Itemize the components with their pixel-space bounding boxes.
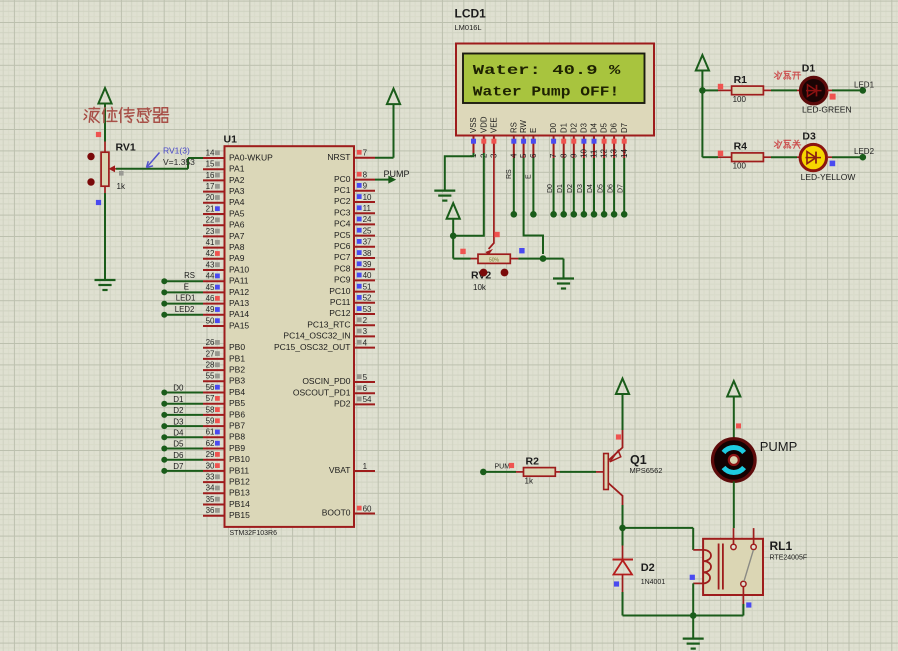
svg-text:45: 45 bbox=[206, 283, 215, 292]
svg-text:PA5: PA5 bbox=[229, 208, 245, 218]
svg-text:LED1: LED1 bbox=[176, 294, 196, 303]
svg-text:E: E bbox=[525, 174, 532, 179]
svg-text:Q1: Q1 bbox=[630, 453, 647, 467]
svg-text:PB7: PB7 bbox=[229, 421, 245, 431]
svg-text:PC4: PC4 bbox=[334, 219, 351, 229]
svg-text:4: 4 bbox=[509, 153, 518, 158]
svg-text:RS: RS bbox=[506, 169, 513, 179]
svg-text:PB3: PB3 bbox=[229, 376, 245, 386]
svg-text:55: 55 bbox=[206, 372, 215, 381]
svg-text:1k: 1k bbox=[525, 476, 534, 485]
svg-text:D7: D7 bbox=[173, 462, 184, 471]
svg-text:D2: D2 bbox=[641, 562, 655, 574]
svg-text:D3: D3 bbox=[580, 123, 589, 133]
svg-text:14: 14 bbox=[206, 148, 215, 157]
svg-text:8: 8 bbox=[363, 170, 368, 179]
svg-text:8: 8 bbox=[559, 153, 568, 158]
svg-text:26: 26 bbox=[206, 338, 215, 347]
svg-text:VEE: VEE bbox=[490, 117, 499, 133]
svg-text:27: 27 bbox=[206, 349, 215, 358]
svg-text:6: 6 bbox=[529, 153, 538, 158]
svg-text:PC0: PC0 bbox=[334, 174, 351, 184]
svg-text:D6: D6 bbox=[610, 123, 619, 133]
svg-text:100: 100 bbox=[733, 162, 747, 171]
svg-text:PC1: PC1 bbox=[334, 185, 351, 195]
svg-text:D1: D1 bbox=[173, 395, 184, 404]
svg-text:RS: RS bbox=[509, 122, 518, 133]
svg-text:PA10: PA10 bbox=[229, 264, 249, 274]
svg-text:D5: D5 bbox=[173, 440, 184, 449]
svg-text:D4: D4 bbox=[587, 184, 594, 193]
svg-text:21: 21 bbox=[206, 204, 215, 213]
svg-text:9: 9 bbox=[569, 153, 578, 158]
svg-text:VBAT: VBAT bbox=[329, 465, 351, 475]
svg-text:36: 36 bbox=[206, 506, 215, 515]
svg-text:RW: RW bbox=[519, 120, 528, 133]
svg-text:1: 1 bbox=[363, 462, 368, 471]
svg-text:PUM: PUM bbox=[495, 464, 511, 471]
svg-text:PB11: PB11 bbox=[229, 465, 249, 475]
svg-text:51: 51 bbox=[363, 282, 372, 291]
svg-text:D5: D5 bbox=[600, 122, 609, 133]
svg-text:MPS6562: MPS6562 bbox=[630, 466, 663, 475]
svg-text:14: 14 bbox=[620, 149, 629, 158]
svg-text:PB8: PB8 bbox=[229, 432, 245, 442]
svg-text:PB6: PB6 bbox=[229, 409, 245, 419]
svg-text:1k: 1k bbox=[117, 182, 126, 191]
svg-text:LED2: LED2 bbox=[175, 305, 195, 314]
svg-text:16: 16 bbox=[206, 171, 215, 180]
svg-text:PA12: PA12 bbox=[229, 287, 249, 297]
svg-text:5: 5 bbox=[519, 153, 528, 158]
svg-text:PA14: PA14 bbox=[229, 309, 249, 319]
svg-text:35: 35 bbox=[206, 495, 215, 504]
svg-text:PB14: PB14 bbox=[229, 499, 250, 509]
svg-text:Water: 40.9 %: Water: 40.9 % bbox=[473, 63, 621, 79]
svg-text:1N4001: 1N4001 bbox=[641, 579, 666, 586]
svg-text:24: 24 bbox=[363, 215, 372, 224]
svg-text:BOOT0: BOOT0 bbox=[322, 508, 351, 518]
svg-text:PA13: PA13 bbox=[229, 298, 249, 308]
svg-text:PB9: PB9 bbox=[229, 443, 245, 453]
svg-text:44: 44 bbox=[206, 272, 215, 281]
svg-text:PB15: PB15 bbox=[229, 510, 250, 520]
svg-text:PC8: PC8 bbox=[334, 263, 351, 273]
svg-text:PUMP: PUMP bbox=[384, 169, 410, 179]
svg-text:38: 38 bbox=[363, 249, 372, 258]
svg-text:D4: D4 bbox=[173, 429, 184, 438]
svg-text:RTE24005F: RTE24005F bbox=[770, 555, 808, 562]
svg-text:56: 56 bbox=[206, 383, 215, 392]
svg-text:43: 43 bbox=[206, 260, 215, 269]
svg-text:E: E bbox=[529, 128, 538, 133]
svg-text:D0: D0 bbox=[547, 184, 554, 193]
svg-text:100: 100 bbox=[733, 95, 747, 104]
svg-text:PC9: PC9 bbox=[334, 275, 351, 285]
svg-text:D3: D3 bbox=[173, 417, 184, 426]
svg-text:28: 28 bbox=[206, 361, 215, 370]
svg-text:PA6: PA6 bbox=[229, 220, 245, 230]
svg-text:5: 5 bbox=[363, 373, 368, 382]
svg-text:D6: D6 bbox=[173, 451, 184, 460]
svg-text:LED-GREEN: LED-GREEN bbox=[802, 105, 852, 115]
svg-text:30: 30 bbox=[206, 461, 215, 470]
svg-text:10: 10 bbox=[580, 149, 589, 158]
svg-text:39: 39 bbox=[363, 260, 372, 269]
svg-text:LED2: LED2 bbox=[854, 147, 875, 156]
svg-text:PA8: PA8 bbox=[229, 242, 245, 252]
svg-text:RV1: RV1 bbox=[116, 142, 136, 154]
svg-text:12: 12 bbox=[600, 149, 609, 158]
svg-text:V=1.353: V=1.353 bbox=[163, 157, 195, 167]
svg-text:PC2: PC2 bbox=[334, 196, 351, 206]
svg-text:LCD1: LCD1 bbox=[455, 7, 487, 21]
svg-text:PA1: PA1 bbox=[229, 164, 245, 174]
svg-text:50: 50 bbox=[206, 316, 215, 325]
svg-text:U1: U1 bbox=[224, 134, 238, 146]
svg-text:PUMP: PUMP bbox=[760, 439, 798, 454]
svg-text:PC12: PC12 bbox=[329, 308, 351, 318]
svg-text:22: 22 bbox=[206, 216, 215, 225]
svg-text:37: 37 bbox=[363, 238, 372, 247]
svg-text:15: 15 bbox=[206, 160, 215, 169]
svg-text:D2: D2 bbox=[173, 406, 184, 415]
svg-text:PB12: PB12 bbox=[229, 477, 250, 487]
svg-text:D7: D7 bbox=[617, 184, 624, 193]
svg-text:D4: D4 bbox=[590, 122, 599, 133]
svg-text:E: E bbox=[184, 282, 189, 291]
svg-text:6: 6 bbox=[363, 384, 368, 393]
svg-text:PB4: PB4 bbox=[229, 387, 245, 397]
svg-text:46: 46 bbox=[206, 294, 215, 303]
svg-text:PB2: PB2 bbox=[229, 365, 245, 375]
svg-text:PA9: PA9 bbox=[229, 253, 245, 263]
svg-text:PC5: PC5 bbox=[334, 230, 351, 240]
svg-text:R4: R4 bbox=[734, 141, 748, 153]
svg-text:13: 13 bbox=[610, 149, 619, 158]
svg-text:PB5: PB5 bbox=[229, 398, 245, 408]
svg-text:Water Pump OFF!: Water Pump OFF! bbox=[473, 85, 620, 101]
svg-text:PB10: PB10 bbox=[229, 454, 250, 464]
svg-text:41: 41 bbox=[206, 238, 215, 247]
svg-text:STM32F103R6: STM32F103R6 bbox=[230, 530, 278, 537]
svg-text:RS: RS bbox=[184, 271, 195, 280]
svg-text:NRST: NRST bbox=[327, 152, 350, 162]
svg-text:17: 17 bbox=[206, 182, 215, 191]
svg-text:61: 61 bbox=[206, 428, 215, 437]
svg-text:7: 7 bbox=[549, 153, 558, 158]
svg-text:D1: D1 bbox=[559, 123, 568, 133]
svg-text:D0: D0 bbox=[173, 384, 184, 393]
svg-text:PB1: PB1 bbox=[229, 353, 245, 363]
svg-text:LED-YELLOW: LED-YELLOW bbox=[801, 172, 856, 182]
svg-text:20: 20 bbox=[206, 193, 215, 202]
svg-text:VDD: VDD bbox=[479, 116, 488, 133]
svg-text:PD2: PD2 bbox=[334, 399, 351, 409]
svg-text:33: 33 bbox=[206, 473, 215, 482]
svg-text:D3: D3 bbox=[802, 131, 816, 143]
svg-text:40: 40 bbox=[363, 271, 372, 280]
svg-text:29: 29 bbox=[206, 450, 215, 459]
svg-text:25: 25 bbox=[363, 226, 372, 235]
svg-text:58: 58 bbox=[206, 405, 215, 414]
svg-text:62: 62 bbox=[206, 439, 215, 448]
svg-text:D6: D6 bbox=[607, 184, 614, 193]
svg-text:D5: D5 bbox=[597, 184, 604, 193]
svg-text:3: 3 bbox=[363, 327, 368, 336]
svg-text:2: 2 bbox=[363, 316, 368, 325]
svg-text:OSCIN_PD0: OSCIN_PD0 bbox=[302, 376, 350, 386]
svg-text:PC11: PC11 bbox=[330, 297, 351, 307]
svg-text:10: 10 bbox=[363, 193, 372, 202]
svg-text:PC14_OSC32_IN: PC14_OSC32_IN bbox=[283, 331, 350, 341]
svg-text:54: 54 bbox=[363, 395, 372, 404]
svg-text:50%: 50% bbox=[489, 258, 500, 264]
svg-text:OSCOUT_PD1: OSCOUT_PD1 bbox=[293, 387, 351, 397]
svg-text:D2: D2 bbox=[569, 123, 578, 133]
svg-text:PA0-WKUP: PA0-WKUP bbox=[229, 152, 273, 162]
svg-text:PC6: PC6 bbox=[334, 241, 351, 251]
svg-text:D1: D1 bbox=[557, 184, 564, 193]
svg-text:PC7: PC7 bbox=[334, 252, 351, 262]
svg-text:11: 11 bbox=[363, 204, 372, 213]
svg-text:PA3: PA3 bbox=[229, 186, 245, 196]
svg-text:7: 7 bbox=[363, 149, 368, 158]
svg-text:9: 9 bbox=[363, 182, 368, 191]
svg-text:R2: R2 bbox=[526, 455, 540, 467]
svg-text:RL1: RL1 bbox=[770, 539, 793, 553]
svg-text:VSS: VSS bbox=[469, 117, 478, 133]
svg-text:60: 60 bbox=[363, 504, 372, 513]
svg-text:PC10: PC10 bbox=[329, 286, 351, 296]
svg-text:PA11: PA11 bbox=[229, 276, 249, 286]
svg-text:D3: D3 bbox=[577, 184, 584, 193]
svg-text:10k: 10k bbox=[473, 283, 487, 292]
svg-text:34: 34 bbox=[206, 484, 215, 493]
svg-text:LED1: LED1 bbox=[854, 80, 875, 89]
svg-text:D1: D1 bbox=[802, 63, 816, 75]
svg-text:PB0: PB0 bbox=[229, 342, 245, 352]
svg-text:D2: D2 bbox=[567, 184, 574, 193]
svg-text:PC3: PC3 bbox=[334, 207, 351, 217]
svg-text:PA7: PA7 bbox=[229, 231, 245, 241]
svg-text:PA4: PA4 bbox=[229, 197, 245, 207]
svg-text:LM016L: LM016L bbox=[455, 23, 482, 32]
svg-text:53: 53 bbox=[363, 305, 372, 314]
svg-text:59: 59 bbox=[206, 417, 215, 426]
svg-text:RV1(3): RV1(3) bbox=[163, 146, 190, 156]
svg-text:57: 57 bbox=[206, 394, 215, 403]
svg-text:52: 52 bbox=[363, 294, 372, 303]
svg-text:R1: R1 bbox=[734, 74, 748, 86]
svg-text:D0: D0 bbox=[549, 122, 558, 133]
svg-text:PA15: PA15 bbox=[229, 320, 249, 330]
svg-text:42: 42 bbox=[206, 249, 215, 258]
svg-text:PA2: PA2 bbox=[229, 175, 245, 185]
svg-text:PC13_RTC: PC13_RTC bbox=[307, 319, 350, 329]
svg-text:23: 23 bbox=[206, 227, 215, 236]
svg-text:PB13: PB13 bbox=[229, 488, 250, 498]
svg-text:49: 49 bbox=[206, 305, 215, 314]
svg-text:PC15_OSC32_OUT: PC15_OSC32_OUT bbox=[274, 342, 351, 352]
svg-text:4: 4 bbox=[363, 338, 368, 347]
svg-text:D7: D7 bbox=[620, 123, 629, 133]
svg-text:11: 11 bbox=[590, 149, 599, 158]
